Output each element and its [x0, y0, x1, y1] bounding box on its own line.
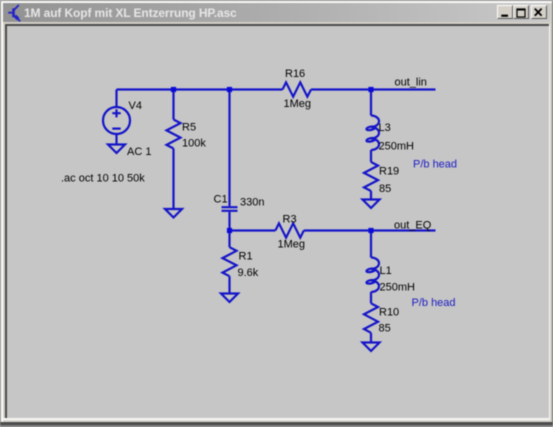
node junction out_EQ: [368, 228, 373, 233]
ground under R5: [165, 209, 182, 218]
node junction out_lin: [368, 87, 373, 92]
svg-text:R16: R16: [285, 68, 305, 80]
wire R1 top lead: [228, 231, 230, 248]
client sunken border: [5, 24, 550, 26]
wire EQ net right segment to out_EQ: [304, 229, 436, 231]
capacitor C1 plates: [222, 207, 238, 211]
svg-text:85: 85: [379, 183, 391, 195]
wire R5 top lead: [172, 90, 174, 120]
window icon (LTspice transistor): [4, 4, 22, 22]
svg-text:100k: 100k: [182, 137, 206, 149]
svg-text:P/b head: P/b head: [412, 297, 456, 309]
inductor L1 body: [371, 258, 379, 293]
ground under R1: [221, 294, 238, 303]
L3 crossover loop 2: [366, 137, 375, 142]
wire R10 bottom lead: [370, 333, 372, 343]
wire C1 top lead: [228, 90, 230, 207]
wire V4 bottom lead: [115, 134, 117, 145]
node junction C1/top net: [227, 87, 232, 92]
resistor R5 body: [167, 120, 181, 149]
svg-text:out_EQ: out_EQ: [394, 219, 432, 231]
window outer frame: [0, 0, 1, 427]
resistor R1 body: [223, 247, 237, 276]
svg-text:P/b head: P/b head: [413, 159, 457, 171]
wire L1 top lead: [370, 231, 372, 258]
wire top net from V4 to R16: [117, 88, 283, 90]
L1 crossover loop 1: [366, 268, 375, 273]
svg-text:250mH: 250mH: [380, 282, 416, 294]
wire C1 bottom lead to EQ node: [228, 212, 230, 231]
ground under R19: [363, 200, 380, 209]
caption buttons: [497, 5, 513, 19]
svg-text:85: 85: [379, 322, 391, 334]
resistor R10 body: [364, 303, 378, 333]
svg-text:.ac oct 10 10 50k: .ac oct 10 10 50k: [61, 172, 145, 184]
L3 crossover loop 1: [366, 126, 375, 131]
V4 minus sign: [112, 128, 120, 130]
wire top net from R16 to out_lin: [311, 88, 436, 90]
svg-text:R5: R5: [182, 122, 196, 134]
inductor L3 body: [371, 116, 379, 151]
title text: [24, 6, 424, 20]
svg-text:R19: R19: [379, 166, 399, 178]
ground under R10: [363, 343, 380, 352]
wire R19 bottom lead: [370, 191, 372, 200]
svg-text:out_lin: out_lin: [395, 77, 427, 89]
svg-text:1Meg: 1Meg: [284, 98, 312, 110]
resistor R19 body: [364, 162, 378, 191]
voltage source V4 circle: [103, 107, 130, 134]
node junction R5/top net: [171, 87, 176, 92]
wire R5 bottom lead: [172, 149, 174, 210]
V4 plus sign: [112, 109, 120, 117]
svg-text:R10: R10: [379, 307, 399, 319]
svg-text:250mH: 250mH: [379, 140, 415, 152]
wire R1 bottom lead: [228, 276, 230, 293]
svg-text:L1: L1: [380, 265, 392, 277]
L1 crossover loop 2: [366, 279, 375, 284]
resistor R3 body: [275, 223, 303, 237]
resistor R16 body: [283, 82, 312, 96]
svg-text:R3: R3: [283, 213, 297, 225]
bottom frame: [3, 418, 550, 420]
wire L3 to R19: [370, 150, 372, 162]
svg-text:V4: V4: [129, 100, 142, 112]
node junction C1 bottom/R1/R3: [227, 228, 232, 233]
wire V4 top lead: [115, 90, 117, 108]
svg-text:9.6k: 9.6k: [238, 267, 259, 279]
svg-text:L3: L3: [379, 122, 391, 134]
wire L3 top lead: [370, 90, 372, 116]
ground under V4: [108, 145, 125, 154]
svg-text:C1: C1: [214, 194, 228, 206]
svg-text:330n: 330n: [240, 196, 264, 208]
svg-text:R1: R1: [239, 251, 253, 263]
svg-text:1Meg: 1Meg: [278, 238, 306, 250]
wire L1 to R10: [370, 292, 372, 303]
title bar: [3, 3, 550, 22]
wire EQ net left segment: [230, 229, 276, 231]
svg-text:AC 1: AC 1: [127, 146, 151, 158]
